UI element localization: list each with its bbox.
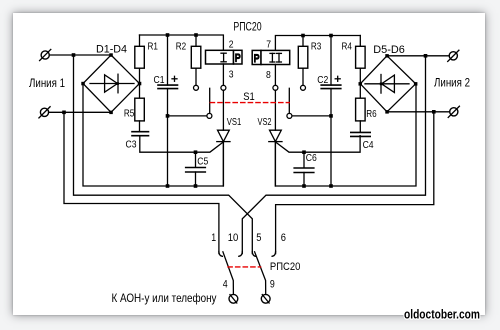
- node C2 to S1 branch junction: [329, 114, 333, 118]
- contact 10 tip hook: [239, 252, 243, 257]
- node VS1 gate junction (C5): [194, 150, 198, 154]
- wire terminal X2 to bridge bottom: [49, 111, 111, 113]
- svg-text:C3: C3: [126, 139, 137, 150]
- svg-text:P: P: [235, 53, 241, 65]
- svg-text:2: 2: [229, 40, 234, 51]
- C1 plus sign: [172, 76, 177, 81]
- pin 8 wire with S1 fixed contact: [273, 65, 278, 131]
- svg-text:R3: R3: [311, 42, 322, 53]
- node junction top line2: [424, 54, 428, 58]
- node junction top line1: [72, 53, 76, 57]
- node C6 bottom rail junction: [302, 184, 306, 188]
- wire bridge2 bottom to terminal X4: [387, 111, 450, 113]
- thyristor VS1: [217, 130, 230, 186]
- node C2 bottom rail junction: [329, 184, 333, 188]
- svg-text:Линия 1: Линия 1: [29, 76, 65, 90]
- node C1 to S1 branch junction: [166, 114, 170, 118]
- svg-text:9: 9: [270, 279, 275, 291]
- S1 left common contact: [207, 113, 212, 118]
- svg-text:D1-D4: D1-D4: [96, 44, 127, 56]
- svg-text:3: 3: [229, 70, 234, 81]
- S1 left pole blade: [209, 88, 211, 113]
- svg-text:5: 5: [256, 232, 261, 244]
- contact 1 tip hook: [219, 252, 223, 257]
- node R3 top junction: [301, 34, 305, 38]
- terminal X4 (line 2 lower): [448, 106, 459, 117]
- node junction bottom line1: [62, 111, 66, 115]
- S1 left fixed contact (R2 side): [194, 85, 199, 90]
- node C1 bottom rail junction: [166, 184, 170, 188]
- capacitor C5: [186, 152, 206, 186]
- resistor R2: [191, 35, 201, 85]
- terminal X3 (line 2 upper): [448, 50, 459, 61]
- svg-text:10: 10: [228, 232, 239, 244]
- diode bridge D5-D6: [359, 54, 418, 114]
- node C2 top junction: [329, 34, 333, 38]
- node C5 bottom rail junction: [194, 184, 198, 188]
- terminal X2 (line 1 lower): [39, 107, 50, 118]
- wire C1 junction to S1 common contact: [168, 115, 207, 117]
- resistor R4: [356, 36, 366, 84]
- capacitor C2: [321, 36, 341, 187]
- wire S1 right common contact to C2 junction: [292, 115, 331, 117]
- S1 right pole blade: [288, 88, 290, 113]
- svg-text:D5-D6: D5-D6: [373, 44, 405, 56]
- svg-text:oldoctober.com: oldoctober.com: [404, 307, 480, 322]
- terminal X5 (pin 4 output): [229, 294, 238, 303]
- svg-text:VS2: VS2: [258, 117, 272, 128]
- svg-text:R5: R5: [124, 109, 135, 120]
- svg-text:Линия 2: Линия 2: [434, 76, 470, 90]
- pin 3 wire with S1 fixed contact: [221, 64, 226, 130]
- svg-text:C2: C2: [317, 75, 328, 86]
- node VS2 gate junction (C6): [302, 150, 306, 154]
- svg-text:6: 6: [281, 232, 286, 244]
- wire bridge1 minus rail to VS1 cathode: [83, 84, 223, 187]
- wire line2-upper to relay contact 10: [242, 56, 425, 254]
- wire bridge2 top to terminal X3: [387, 55, 449, 57]
- svg-text:S1: S1: [243, 91, 255, 103]
- thyristor VS2: [269, 130, 282, 186]
- svg-text:РПС20: РПС20: [233, 19, 261, 33]
- wire top rail right: [275, 36, 360, 51]
- wire top rail left: [140, 35, 224, 50]
- resistor R1: [135, 35, 145, 84]
- resistor R3: [298, 36, 308, 86]
- wire bridge2 minus rail to VS2 cathode: [275, 84, 416, 186]
- capacitor C3: [132, 132, 149, 136]
- svg-text:1: 1: [211, 232, 216, 244]
- C2 plus sign: [335, 76, 340, 81]
- svg-text:C5: C5: [197, 156, 208, 167]
- svg-text:К АОН-у или телефону: К АОН-у или телефону: [112, 291, 217, 305]
- svg-text:C1: C1: [154, 75, 165, 86]
- terminal X1 (line 1 upper): [40, 49, 51, 60]
- svg-text:R6: R6: [366, 109, 377, 120]
- svg-text:8: 8: [266, 70, 271, 81]
- capacitor C4: [351, 132, 370, 136]
- svg-text:R4: R4: [342, 42, 353, 53]
- contact 5 tip hook: [252, 252, 256, 257]
- S1 mechanical link (red dashed): [210, 102, 289, 104]
- svg-text:R2: R2: [176, 42, 187, 53]
- S1 right fixed contact (R3 side): [301, 85, 306, 90]
- relay coil U1-II: [252, 50, 290, 64]
- relay contact arm to pin 4: [223, 252, 234, 294]
- wire line1-lower to relay contact 1: [64, 112, 219, 253]
- terminal X6 (pin 9 output): [261, 294, 270, 303]
- relay contacts mechanical link (red dashed): [228, 266, 261, 268]
- wire C4 to VS2 gate: [276, 136, 360, 153]
- svg-text:P: P: [254, 53, 260, 65]
- node junction bottom line2: [432, 110, 436, 114]
- resistor R5: [135, 84, 145, 132]
- capacitor C6: [294, 152, 314, 186]
- resistor R6: [356, 84, 366, 132]
- capacitor C1: [158, 35, 178, 186]
- relay coil U1-I: [206, 50, 243, 64]
- svg-text:C4: C4: [363, 140, 374, 151]
- S1 right common contact: [287, 113, 292, 118]
- svg-text:4: 4: [223, 279, 228, 291]
- svg-text:VS1: VS1: [227, 117, 242, 128]
- wire terminal X1 to bridge top: [49, 54, 111, 56]
- diode bridge D1-D4: [81, 53, 141, 114]
- node C1 top junction: [166, 33, 170, 37]
- svg-text:7: 7: [266, 40, 271, 51]
- wire line1-upper to relay contact 5: [74, 55, 253, 254]
- contact 6 tip hook: [272, 252, 276, 257]
- svg-text:R1: R1: [148, 42, 159, 53]
- node R2 top junction: [194, 33, 198, 37]
- relay contact arm to pin 9: [255, 252, 266, 294]
- svg-text:РПС20: РПС20: [270, 261, 301, 273]
- wire C3 to VS1 gate: [140, 136, 223, 153]
- wire line2-lower to relay contact 6: [276, 112, 434, 254]
- svg-text:C6: C6: [306, 153, 317, 164]
